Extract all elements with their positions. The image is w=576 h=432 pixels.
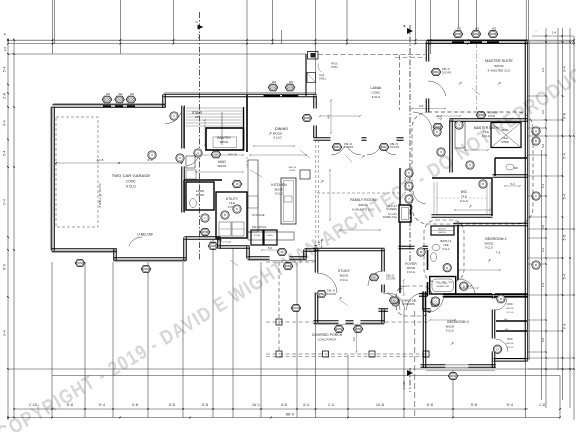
svg-text:TILE: TILE [229, 201, 235, 205]
slab line below garage wall [52, 252, 116, 254]
svg-text:9 CLG: 9 CLG [442, 248, 449, 251]
study west wall [315, 249, 318, 273]
svg-text:MUD: MUD [218, 160, 226, 164]
bottom slab line [52, 375, 560, 377]
lanai east dashed [399, 55, 401, 110]
garage interior dim ticks [55, 162, 183, 164]
svg-text:4-5: 4-5 [400, 285, 403, 289]
svg-text:9 CLG: 9 CLG [372, 95, 381, 99]
top extension line 2 [53, 0, 55, 44]
svg-text:5-0 TILE: 5-0 TILE [438, 283, 448, 285]
master bath north wall [449, 119, 527, 122]
svg-text:7'-6: 7'-6 [496, 251, 501, 255]
family label [350, 198, 376, 212]
svg-text:TILE: TILE [502, 137, 508, 140]
svg-text:9 CLG: 9 CLG [407, 270, 415, 274]
master arrows [458, 81, 501, 87]
svg-text:SHWR TUB: SHWR TUB [437, 286, 450, 288]
svg-text:1'-10: 1'-10 [29, 403, 37, 407]
slab line left of garage [49, 107, 51, 250]
top dimension line 3 [8, 53, 306, 55]
master south dashed [428, 111, 526, 113]
svg-text:↗: ↗ [450, 341, 454, 346]
porch north dashed [266, 261, 316, 263]
svg-text:5'-8: 5'-8 [67, 403, 73, 407]
slab line below entry wall [114, 261, 186, 263]
garage window ticks [103, 105, 135, 107]
foyer tags [417, 248, 425, 256]
study slab line [314, 324, 384, 326]
bottom extension line 14 [525, 360, 527, 418]
mb door tags [433, 121, 487, 188]
svg-text:3'-4: 3'-4 [3, 120, 7, 126]
bedroom2 door arc [459, 279, 475, 295]
svg-text:5-8: 5-8 [541, 144, 545, 149]
entry door tag [391, 298, 399, 306]
mb vanity [455, 122, 465, 148]
left dimension line 1 [7, 38, 9, 420]
svg-text:UP: UP [195, 115, 199, 119]
kitchen sink [284, 196, 292, 202]
svg-text:UTILITY: UTILITY [226, 197, 239, 201]
wic2 door tag [493, 345, 501, 353]
svg-text:3050: 3050 [450, 374, 457, 378]
svg-text:9 CLG: 9 CLG [460, 199, 468, 203]
family column dash [315, 140, 317, 244]
svg-text:6'-8: 6'-8 [563, 113, 567, 119]
svg-text:9 CLG: 9 CLG [275, 192, 283, 196]
right stub ticks [545, 41, 575, 370]
right extension stub 7 [528, 175, 563, 177]
slab line right of east wall [528, 42, 530, 360]
svg-text:CONC PORCH: CONC PORCH [318, 338, 337, 342]
svg-text:WOOD: WOOD [340, 274, 349, 278]
svg-text:8-0: 8-0 [353, 337, 356, 341]
right extension stub 1 [528, 41, 574, 43]
bedroom2 door tag [460, 282, 468, 290]
svg-text:EGRESS: EGRESS [488, 113, 499, 115]
lanai grill box [307, 73, 316, 83]
svg-text:B: B [535, 139, 537, 143]
master egress note [488, 113, 499, 118]
svg-text:WOOD: WOOD [275, 188, 284, 192]
family ceiling dash [317, 192, 400, 194]
bedroom2 label [485, 237, 507, 250]
slab line above house top [164, 92, 316, 94]
se corner wall [493, 359, 527, 362]
bath2 east wall [457, 225, 459, 281]
svg-text:↗: ↗ [487, 258, 491, 263]
svg-text:CONC: CONC [76, 261, 84, 265]
stair east wall [243, 107, 245, 150]
svg-text:2050: 2050 [490, 32, 497, 36]
svg-text:24: 24 [214, 153, 218, 157]
svg-text:9'-4: 9'-4 [563, 66, 567, 72]
svg-text:W2: W2 [289, 80, 293, 84]
bedroom3 west wall [423, 291, 426, 368]
hall circle tags [405, 169, 413, 203]
linen shelves [431, 230, 454, 232]
fireplace note [383, 205, 398, 219]
svg-text:2050: 2050 [355, 327, 362, 331]
family east wall lower [399, 222, 401, 247]
bedroom3 window jambs [445, 365, 469, 367]
svg-text:9 CLG: 9 CLG [482, 134, 490, 138]
stair west wall [183, 107, 185, 148]
kitchen tag [233, 205, 241, 213]
lanai hall arc [413, 112, 432, 131]
svg-text:9'-4: 9'-4 [99, 403, 105, 407]
study east wall 2 [382, 284, 385, 292]
pass thru counter [300, 170, 310, 179]
section marker A right bottom [402, 370, 413, 389]
master bath label [474, 126, 499, 138]
svg-text:DBL: DBL [371, 275, 377, 279]
mud label [218, 160, 227, 168]
pass thru note [288, 167, 297, 172]
lanai west wall lower2 [314, 125, 317, 137]
top dimension line 1 [8, 39, 574, 41]
svg-text:W2: W2 [457, 26, 461, 30]
right extension stub 15 [528, 319, 546, 321]
porch west dashed [278, 262, 280, 354]
garage top step wall [163, 94, 166, 107]
bedroom3 east wall [492, 295, 495, 298]
kitchen counter south [248, 232, 294, 240]
bedroom3 door tag [431, 297, 439, 305]
stair arrow [221, 112, 223, 145]
bottom extension line 11 [347, 355, 349, 418]
svg-text:5'-8: 5'-8 [563, 235, 567, 241]
svg-text:TILE: TILE [443, 244, 449, 247]
entry door arcs [388, 293, 424, 310]
garage bottom wall [51, 249, 116, 252]
entry east jamb [423, 291, 426, 310]
fireplace box [399, 205, 411, 222]
svg-text:↗: ↗ [458, 81, 462, 87]
bath2 tub [430, 277, 456, 295]
svg-text:W2: W2 [272, 80, 276, 84]
svg-text:WOOD: WOOD [218, 164, 227, 168]
bottom extension line 1 [51, 262, 53, 418]
mwic label [460, 190, 468, 203]
porch hex 1 [291, 305, 301, 312]
right dimension line 3 [557, 28, 559, 370]
family door arc 2 [367, 146, 396, 155]
svg-text:PWDR: PWDR [196, 193, 204, 197]
foyer label [405, 262, 417, 274]
svg-text:DOORS: DOORS [390, 146, 400, 149]
svg-text:WOOD: WOOD [494, 64, 503, 68]
study note east [386, 274, 396, 280]
kitchen hex [232, 181, 242, 188]
zone dashed master [412, 112, 533, 224]
svg-text:U-BELOW: U-BELOW [137, 233, 153, 237]
south wall segment 3 [247, 257, 269, 260]
entry wall east [423, 309, 430, 312]
fireplace inner [402, 208, 409, 220]
svg-text:↗: ↗ [497, 81, 501, 87]
pantry room [206, 128, 244, 150]
bath2 sink [432, 245, 440, 251]
family door hex 2 [379, 144, 389, 151]
svg-text:5-6: 5-6 [268, 247, 272, 250]
wc toilet [506, 164, 514, 170]
lanai west wall [305, 54, 307, 96]
entry step wall 1 [184, 237, 187, 260]
garage door tag [170, 112, 178, 120]
right dimension line 5 [569, 28, 571, 408]
svg-text:REF SPACE: REF SPACE [252, 226, 267, 229]
left dimension line 2 [13, 38, 15, 418]
svg-text:5'-4: 5'-4 [3, 66, 7, 72]
svg-text:2: 2 [195, 21, 199, 23]
svg-text:2668: 2668 [304, 116, 311, 120]
bath2 toilet [431, 253, 437, 262]
bottom extension line 6 [212, 240, 214, 418]
lanai grill note [319, 74, 327, 81]
wic2 label [506, 337, 514, 349]
svg-text:5-0: 5-0 [511, 183, 515, 186]
top extension line 1 [52, 0, 54, 54]
bottom extension line 13 [452, 370, 454, 418]
svg-text:THRU: THRU [331, 66, 338, 69]
master door hex [431, 69, 441, 76]
hall arch dashes [246, 157, 248, 168]
garage left wall [52, 106, 55, 250]
bedroom3 east wall 3 [492, 351, 495, 368]
bottom extension line 3 [112, 262, 114, 418]
mud door tag [176, 154, 184, 162]
svg-text:2668: 2668 [210, 244, 217, 248]
svg-text:MASTER SUITE: MASTER SUITE [485, 59, 513, 63]
svg-text:TILE: TILE [483, 130, 489, 134]
right extension stub 3 [528, 119, 563, 121]
svg-text:FAMILY ROOM: FAMILY ROOM [350, 198, 376, 202]
svg-text:WOOD: WOOD [485, 242, 494, 246]
right extension stub 19 [528, 368, 574, 370]
svg-text:BATH 2: BATH 2 [441, 239, 452, 243]
entry door tag 2 [431, 298, 439, 306]
lanai door hex [302, 115, 312, 122]
svg-text:9 CLG: 9 CLG [340, 278, 348, 282]
svg-text:2-8: 2-8 [3, 46, 7, 51]
wc room walls [495, 158, 527, 176]
lanai hall hex [433, 123, 443, 130]
bottom yard line [8, 368, 574, 370]
svg-text:CONC: CONC [372, 91, 381, 95]
flex door tag [201, 214, 209, 222]
family north wall 3 [396, 138, 403, 141]
svg-text:9 CLG: 9 CLG [273, 136, 282, 140]
study south wall 2 [345, 321, 353, 324]
svg-text:9 VAULTED CLG: 9 VAULTED CLG [488, 69, 511, 73]
pantry inner [213, 137, 237, 148]
mud door arc [187, 150, 200, 166]
bottom extension line 12 [403, 310, 405, 418]
master door arc [428, 81, 446, 96]
svg-text:WOOD: WOOD [220, 140, 229, 144]
foyer east wall [427, 250, 429, 296]
right dimension line 1 [541, 150, 543, 400]
svg-text:26: 26 [280, 250, 284, 254]
svg-text:IN DOORS: IN DOORS [402, 303, 415, 306]
left dimension ticks [7, 39, 15, 418]
svg-text:A-3: A-3 [197, 33, 201, 38]
study hex west [317, 290, 327, 297]
svg-text:9'-4: 9'-4 [3, 330, 7, 336]
lanai nw post [308, 52, 319, 60]
svg-text:DBL: DBL [433, 70, 439, 74]
svg-text:FOYER: FOYER [405, 262, 417, 266]
top extension line 14 [525, 0, 527, 42]
top extension line 11 [430, 0, 432, 54]
bedroom2 south wall [443, 295, 527, 298]
svg-text:WOOD: WOOD [358, 203, 367, 207]
svg-text:GRILL: GRILL [319, 78, 327, 81]
svg-text:7-8 PLT 8-0 HDR: 7-8 PLT 8-0 HDR [405, 177, 407, 196]
svg-text:9 CLG: 9 CLG [507, 312, 514, 314]
top extension line 7 [281, 30, 283, 44]
top extension line 13 [475, 0, 477, 30]
svg-text:↗: ↗ [268, 131, 272, 136]
hall dim line [411, 104, 446, 109]
svg-text:2050: 2050 [116, 98, 123, 102]
svg-text:W2: W2 [119, 92, 123, 96]
study east wall 3 [382, 309, 385, 322]
family column dash 2 [317, 140, 319, 244]
study south wall [313, 321, 338, 324]
closet hex [277, 249, 287, 256]
conc hex 2 [141, 266, 151, 273]
svg-text:2050: 2050 [285, 264, 292, 268]
bottom extension line 15 [559, 376, 561, 418]
porch south dashed [266, 354, 428, 357]
right dimension line 2 [545, 28, 547, 408]
svg-text:2050: 2050 [287, 86, 294, 90]
master bath west wall [450, 119, 453, 172]
svg-text:DBL: DBL [391, 298, 397, 302]
wic1 door arc [495, 298, 507, 310]
svg-text:DISPL: DISPL [289, 170, 297, 172]
svg-text:2050: 2050 [270, 86, 277, 90]
utility walls [216, 192, 247, 238]
svg-text:↗: ↗ [361, 154, 365, 159]
svg-text:WOOD: WOOD [506, 308, 514, 310]
bedroom3 south wall [420, 365, 445, 368]
svg-text:4-8: 4-8 [419, 104, 424, 108]
south wall segment 4 [289, 257, 306, 260]
dining label [273, 127, 288, 140]
slab line above garage [53, 103, 165, 105]
wic1 north wall [495, 294, 528, 297]
top extension line 12 [458, 0, 460, 28]
section line A right [409, 25, 411, 392]
family door arc 1 [331, 146, 361, 155]
bottom dimension ticks [7, 408, 561, 418]
slab line below south mid [248, 260, 316, 262]
laundry washer [219, 222, 231, 236]
family east wall upper [399, 168, 401, 205]
svg-text:SCREEN: SCREEN [386, 208, 397, 211]
svg-text:2050: 2050 [455, 32, 462, 36]
hall door hex [208, 243, 218, 250]
garage door arc [165, 113, 181, 124]
svg-text:DBL: DBL [319, 292, 325, 296]
svg-text:WIC: WIC [461, 190, 468, 194]
svg-text:16'-1: 16'-1 [252, 403, 260, 407]
svg-text:2050: 2050 [104, 98, 111, 102]
svg-text:5'-4: 5'-4 [563, 153, 567, 159]
svg-text:9 CLG: 9 CLG [446, 329, 454, 333]
svg-text:2050: 2050 [473, 32, 480, 36]
right extension stub 4 [528, 127, 546, 129]
closet labels [254, 235, 274, 237]
svg-text:5'-8: 5'-8 [202, 403, 208, 407]
svg-text:3-1: 3-1 [218, 239, 222, 242]
lanai label [371, 86, 382, 99]
master west wall lower [426, 98, 429, 112]
svg-text:WIC: WIC [507, 302, 513, 306]
mud south wall [184, 179, 222, 181]
svg-text:FLRS: FLRS [196, 189, 204, 193]
section marker A right top [403, 24, 414, 34]
svg-text:4'-4: 4'-4 [303, 403, 309, 407]
svg-text:4'-8: 4'-8 [132, 403, 138, 407]
svg-text:5-4: 5-4 [541, 184, 545, 189]
svg-text:5': 5' [3, 32, 7, 35]
porch inner dashed [266, 321, 428, 323]
svg-text:16: 16 [235, 182, 239, 186]
interior dimension leaders [195, 115, 501, 321]
slab line below bedroom3 [426, 370, 495, 372]
svg-text:CONC: CONC [142, 267, 150, 271]
svg-text:5'-4: 5'-4 [507, 403, 513, 407]
svg-text:WOOD: WOOD [446, 325, 455, 329]
entry centerline dash [414, 311, 416, 417]
bottom extension line 8 [260, 262, 262, 418]
right dimension line 4 [562, 28, 564, 400]
foyer north wall [398, 246, 428, 249]
svg-text:DOORS: DOORS [386, 278, 396, 281]
svg-text:4-6: 4-6 [318, 241, 321, 245]
utility door tag [221, 211, 229, 219]
bedroom3 south wall 2 [468, 365, 496, 368]
flex label [196, 189, 204, 197]
mb window tags [532, 127, 540, 200]
right extension stub 5 [528, 135, 574, 137]
mwic east wall [491, 178, 493, 216]
family door note 2 [390, 143, 400, 149]
zone dashed foyer [396, 286, 432, 316]
svg-text:21'-8: 21'-8 [96, 158, 103, 162]
study window note [327, 290, 337, 296]
wic1 door tag [497, 295, 505, 303]
svg-text:SHLVS: SHLVS [438, 232, 446, 234]
utility appliance lines [219, 228, 244, 230]
svg-text:W2: W2 [130, 92, 134, 96]
master window ticks [452, 41, 499, 43]
svg-text:DOORS: DOORS [442, 72, 452, 75]
top right corner dims [532, 30, 574, 37]
study west wall 2 [315, 292, 318, 322]
study door arc west [317, 273, 337, 293]
top extension line 3 [119, 0, 121, 54]
right extension stub 14 [528, 294, 574, 296]
study door arc east [368, 271, 383, 286]
wic mid wall [496, 330, 527, 332]
top extension line 4 [173, 0, 175, 44]
